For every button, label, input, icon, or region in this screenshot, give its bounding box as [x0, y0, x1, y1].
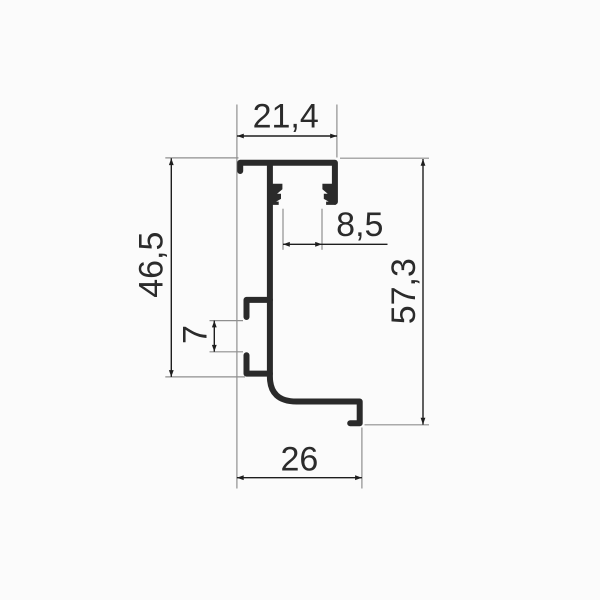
extension line 26 right vertical x=362 — [361, 428, 363, 489]
profile left serrated tooth — [269, 184, 282, 205]
svg-text:26: 26 — [280, 440, 318, 478]
extension line 57,3 bottom horizontal y=424.8 — [365, 424, 430, 426]
extension line 8,5 right vertical x=322 — [321, 209, 323, 250]
extension line 46,5 bottom horizontal y=376.9 — [165, 376, 245, 378]
svg-text:57,3: 57,3 — [385, 258, 423, 324]
svg-text:21,4: 21,4 — [253, 97, 319, 135]
extension line 7 top horizontal y=320.6 — [210, 320, 244, 322]
dimension 21,4 line — [237, 134, 337, 139]
extension line 7 bottom horizontal y=351.8 — [210, 351, 244, 353]
svg-text:7: 7 — [177, 325, 215, 344]
extension line 8,5 left vertical x=283 — [282, 209, 284, 250]
profile right serrated tooth — [322, 184, 335, 205]
profile upper channel arm — [247, 300, 270, 317]
extension line top-right horizontal y=158 — [340, 157, 429, 159]
dimension 46,5 line — [169, 158, 174, 377]
profile top bar with left lip and right wall — [240, 163, 335, 202]
profile lower channel arm — [247, 355, 270, 373]
extension line left vertical x=237 — [236, 105, 238, 489]
extension line top-left horizontal y=158 — [165, 157, 238, 159]
dimension 8,5 line — [283, 242, 388, 247]
dimension 26 line — [237, 475, 362, 480]
svg-text:8,5: 8,5 — [336, 206, 383, 244]
profile stem with bottom flange, lip and foot — [270, 164, 360, 423]
svg-text:46,5: 46,5 — [133, 232, 171, 298]
dimension 7 line — [212, 321, 217, 352]
dimension 57,3 line — [421, 159, 426, 425]
extension line right vertical x=337 (top dim) — [336, 105, 338, 158]
